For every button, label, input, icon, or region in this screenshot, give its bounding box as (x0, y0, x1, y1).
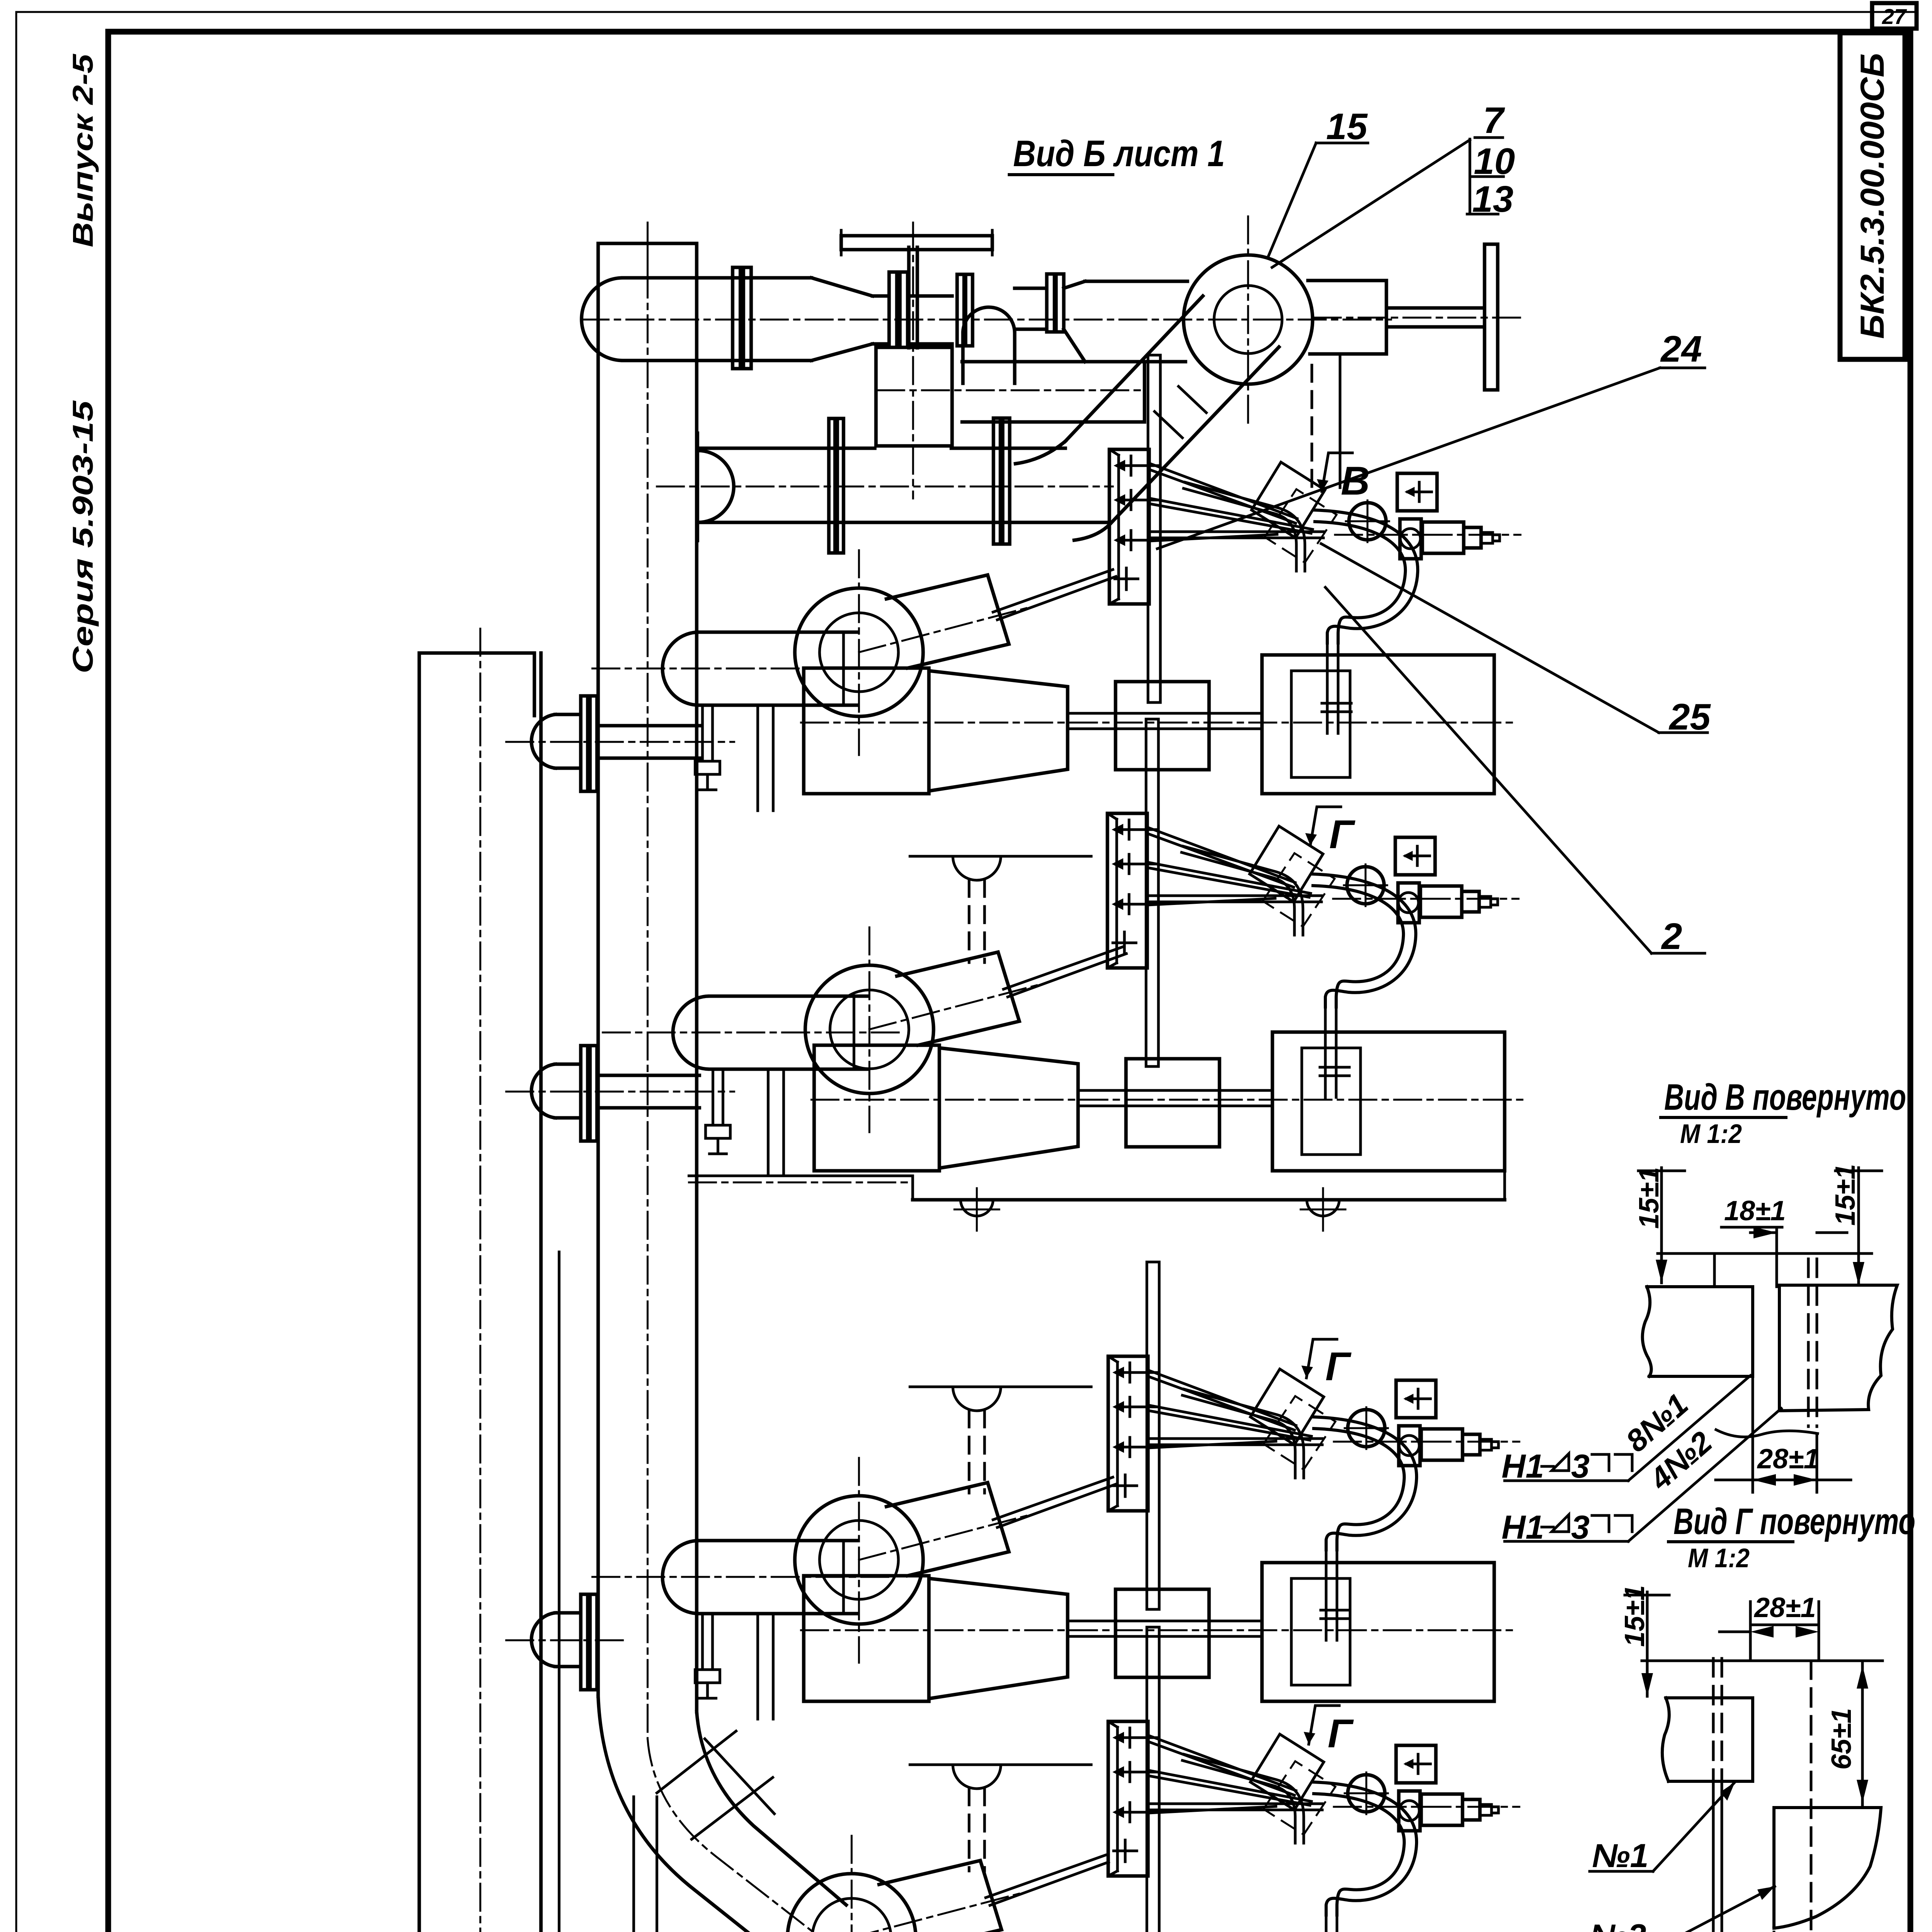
svg-text:Вид В повернуто: Вид В повернуто (1664, 1077, 1906, 1118)
reducer (811, 278, 872, 296)
dim 15±1 right (1830, 1164, 1861, 1226)
burner unit 4 elbow/cone row (787, 1836, 1509, 1932)
elbow arcs joining lower pipe (1015, 441, 1065, 464)
svg-text:65±1: 65±1 (1826, 1708, 1857, 1770)
unit 4 nozzle assembly (1108, 1627, 1519, 1932)
svg-text:Вид Б лист 1: Вид Б лист 1 (1013, 133, 1225, 174)
svg-text:Серия 5.903-15: Серия 5.903-15 (67, 400, 99, 673)
valve body upper (908, 294, 952, 298)
lower wavy piece (1716, 1430, 1818, 1437)
svg-text:27: 27 (1882, 4, 1907, 29)
stub 3 y4243 (506, 1594, 626, 1690)
svg-text:Г: Г (1329, 812, 1355, 857)
svg-text:24: 24 (1660, 328, 1702, 370)
miter ticks (1155, 412, 1182, 438)
dim 18±1 (1724, 1196, 1786, 1226)
valve stem and handwheel (907, 247, 911, 348)
outer thin border left (15, 12, 17, 1932)
stub 1 y1918 (506, 696, 734, 791)
svg-text:Г: Г (1328, 1711, 1354, 1756)
top-right rotated doc box (1840, 33, 1905, 359)
svg-text:Вид Г повернуто: Вид Г повернуто (1673, 1501, 1915, 1542)
unit 1 manifold capsule (592, 632, 894, 811)
parallel narrow pipe line (558, 1252, 561, 1932)
pipe to the right of torus (1308, 279, 1386, 282)
header centerline (480, 629, 481, 1932)
D elbow with dome (963, 307, 1015, 333)
burner unit 1 elbow/cone row (795, 550, 1516, 794)
dim 15±1 (1619, 1585, 1650, 1647)
lower feed pipe P2 with dished cap (698, 451, 734, 522)
svg-text:7: 7 (1483, 100, 1505, 141)
svg-text:Г: Г (1325, 1344, 1352, 1389)
unit 2 nozzle assembly (1107, 719, 1519, 1097)
expander (1064, 281, 1085, 288)
centerline dashed through left block (1712, 1658, 1715, 1781)
dim 28±1 top (1753, 1592, 1816, 1623)
svg-text:28±1: 28±1 (1757, 1444, 1819, 1475)
stem above valve (633, 1797, 635, 1932)
unit 2 upper connector (910, 856, 1091, 963)
flange on lower pipe (993, 418, 1000, 544)
unit 3 nozzle assembly (1108, 1262, 1519, 1640)
main centerline (582, 319, 1391, 321)
svg-text:М 1:2: М 1:2 (1680, 1119, 1742, 1149)
svg-text:№2: №2 (1590, 1918, 1646, 1932)
top line (1642, 1660, 1883, 1662)
unit 3 upper connector (910, 1387, 1091, 1493)
dim 65±1 (1826, 1708, 1857, 1770)
stub 2 y2773 (506, 1046, 734, 1141)
svg-text:2: 2 (1661, 916, 1682, 957)
right block (1779, 1285, 1897, 1411)
svg-text:БК2.5.3.00.000СБ: БК2.5.3.00.000СБ (1854, 53, 1891, 339)
valve inlet flange (889, 272, 897, 347)
dim 15±1 left (1634, 1167, 1665, 1229)
outlet flange (957, 274, 964, 346)
left block (1662, 1698, 1753, 1781)
outer thin border top (16, 11, 1917, 13)
svg-text:28±1: 28±1 (1753, 1592, 1816, 1623)
dashed hidden lines (1807, 1259, 1810, 1427)
lower pipe from valve to diagonal elbow (962, 360, 1145, 364)
burner unit 2 elbow/cone row (805, 927, 1526, 1171)
dashed centerline right (1810, 1661, 1813, 1932)
unit 1 nozzle assembly (1109, 355, 1520, 733)
left dished end cap (582, 278, 623, 361)
unit 3 manifold capsule (592, 1541, 894, 1719)
svg-text:15±1: 15±1 (1634, 1167, 1665, 1229)
svg-text:15: 15 (1326, 106, 1368, 147)
right block (1774, 1808, 1881, 1928)
pipe between elbow and flange F3 (1015, 287, 1047, 290)
svg-text:15±1: 15±1 (1830, 1164, 1861, 1226)
burner unit 3 elbow/cone row (795, 1458, 1516, 1701)
No1 No2 labels (1590, 1837, 1648, 1932)
page number box 27 (1872, 3, 1917, 29)
unit 2 manifold capsule (603, 996, 904, 1175)
svg-text:Выпуск 2-5: Выпуск 2-5 (67, 53, 99, 247)
svg-text:18±1: 18±1 (1724, 1196, 1786, 1226)
unit 4 upper connector (910, 1765, 1091, 1871)
svg-text:М 1:2: М 1:2 (1688, 1543, 1750, 1573)
miter section with X cross (705, 1739, 774, 1814)
left block (1643, 1287, 1753, 1376)
dim 28±1 (1757, 1444, 1819, 1475)
header pipe body (418, 653, 421, 1932)
valve body lower big rect (876, 347, 952, 446)
hidden risers from torus down (1311, 365, 1313, 490)
top reference line (1658, 1252, 1872, 1255)
elbow bend to diagonal (598, 1696, 802, 1932)
svg-text:№1: №1 (1592, 1837, 1648, 1874)
wide pipe (623, 276, 811, 280)
